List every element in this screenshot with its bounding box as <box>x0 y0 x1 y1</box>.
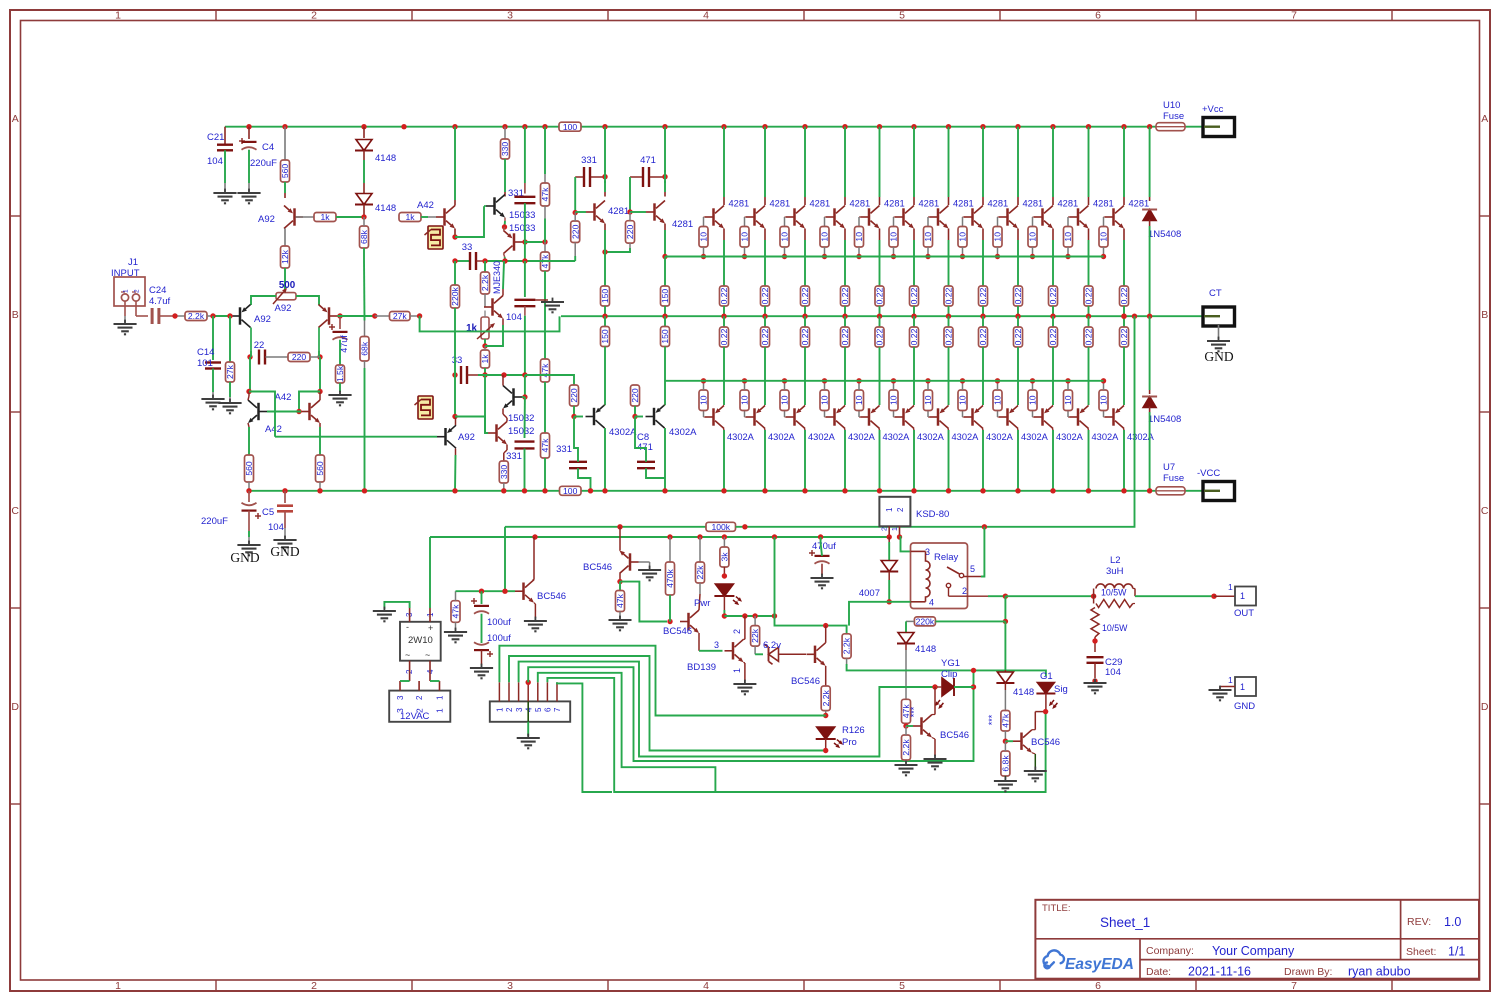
svg-text:1: 1 <box>732 668 742 673</box>
svg-text:4281: 4281 <box>953 199 974 209</box>
svg-text:560: 560 <box>315 461 325 476</box>
svg-text:5: 5 <box>899 980 905 992</box>
svg-text:L2: L2 <box>1110 555 1121 566</box>
svg-text:10: 10 <box>1063 395 1073 405</box>
svg-text:7: 7 <box>1291 9 1297 21</box>
svg-text:D: D <box>1481 701 1489 713</box>
svg-text:220: 220 <box>292 352 307 362</box>
svg-text:15033: 15033 <box>509 223 535 234</box>
svg-text:4148: 4148 <box>375 203 396 214</box>
svg-text:B: B <box>1481 309 1488 321</box>
svg-text:2: 2 <box>896 507 905 512</box>
svg-text:MJE340: MJE340 <box>492 261 502 294</box>
svg-text:1: 1 <box>892 527 899 531</box>
svg-text:2: 2 <box>882 527 889 531</box>
svg-text:100k: 100k <box>711 522 730 532</box>
svg-text:-: - <box>406 622 409 632</box>
svg-text:C5: C5 <box>262 507 274 518</box>
svg-text:47k: 47k <box>615 593 625 608</box>
svg-text:10: 10 <box>854 395 864 405</box>
svg-text:10: 10 <box>889 232 899 242</box>
svg-text:27k: 27k <box>225 364 235 379</box>
svg-text:10: 10 <box>923 232 933 242</box>
svg-text:C: C <box>1481 505 1489 517</box>
svg-text:3: 3 <box>507 980 513 992</box>
svg-text:0.22: 0.22 <box>760 328 770 345</box>
svg-text:22: 22 <box>254 340 265 351</box>
svg-text:1N5408: 1N5408 <box>1148 229 1181 240</box>
svg-text:1k: 1k <box>320 212 330 222</box>
svg-text:2W10: 2W10 <box>408 635 433 646</box>
svg-text:220k: 220k <box>450 286 460 305</box>
svg-text:GND: GND <box>1234 701 1255 712</box>
svg-text:10: 10 <box>1028 232 1038 242</box>
svg-text:3: 3 <box>714 640 719 650</box>
svg-text:4281: 4281 <box>919 199 940 209</box>
svg-text:YG1: YG1 <box>941 658 960 669</box>
svg-text:4302A: 4302A <box>808 432 836 442</box>
svg-text:0.22: 0.22 <box>800 287 810 304</box>
svg-text:4148: 4148 <box>915 644 936 655</box>
svg-text:Fuse: Fuse <box>1163 473 1184 484</box>
svg-text:10: 10 <box>780 232 790 242</box>
svg-text:A42: A42 <box>417 200 434 211</box>
svg-text:2.2k: 2.2k <box>821 689 831 706</box>
svg-text:A42: A42 <box>275 392 292 403</box>
svg-text:B: B <box>12 309 19 321</box>
svg-text:101: 101 <box>197 358 213 369</box>
svg-text:4281: 4281 <box>1058 199 1079 209</box>
svg-text:A92: A92 <box>275 303 292 314</box>
svg-text:C4: C4 <box>262 142 274 153</box>
svg-text:3: 3 <box>396 695 405 700</box>
svg-text:1: 1 <box>1228 582 1233 592</box>
svg-text:Sheet:: Sheet: <box>1406 946 1436 958</box>
svg-text:1: 1 <box>436 695 445 700</box>
svg-text:6.2v: 6.2v <box>763 640 781 651</box>
svg-text:560: 560 <box>280 164 290 179</box>
svg-text:4302A: 4302A <box>669 427 697 438</box>
svg-text:TITLE:: TITLE: <box>1042 903 1071 914</box>
svg-text:4302A: 4302A <box>917 432 945 442</box>
svg-text:10: 10 <box>820 395 830 405</box>
svg-text:4281: 4281 <box>672 219 693 230</box>
svg-text:0.22: 0.22 <box>1084 287 1094 304</box>
svg-text:Sig: Sig <box>1054 684 1068 695</box>
svg-text:+Vcc: +Vcc <box>1202 104 1224 115</box>
svg-text:1N5408: 1N5408 <box>1148 414 1181 425</box>
svg-text:0.22: 0.22 <box>875 287 885 304</box>
svg-text:0.22: 0.22 <box>1119 328 1129 345</box>
svg-text:2.2k: 2.2k <box>901 739 911 756</box>
svg-text:104: 104 <box>1105 667 1121 678</box>
svg-text:104: 104 <box>207 156 223 167</box>
svg-text:10: 10 <box>958 232 968 242</box>
svg-text:4302A: 4302A <box>1021 432 1049 442</box>
svg-text:OUT: OUT <box>1234 608 1254 619</box>
svg-text:GND: GND <box>1204 349 1233 364</box>
svg-text:1: 1 <box>1240 682 1245 692</box>
svg-text:4302A: 4302A <box>768 432 796 442</box>
svg-text:U10: U10 <box>1163 100 1180 111</box>
svg-text:5: 5 <box>534 707 543 712</box>
svg-text:10: 10 <box>820 232 830 242</box>
svg-text:10/5W: 10/5W <box>1101 588 1127 598</box>
svg-text:Date:: Date: <box>1146 966 1171 978</box>
svg-text:BD139: BD139 <box>687 662 716 673</box>
svg-text:1: 1 <box>123 289 130 293</box>
svg-text:10: 10 <box>1099 232 1109 242</box>
svg-text:0.22: 0.22 <box>760 287 770 304</box>
svg-text:***: *** <box>987 714 997 725</box>
svg-text:1: 1 <box>115 980 121 992</box>
svg-text:2.2k: 2.2k <box>480 274 490 291</box>
svg-text:4281: 4281 <box>770 199 791 209</box>
svg-text:6: 6 <box>1095 9 1101 21</box>
svg-text:2: 2 <box>414 708 424 713</box>
svg-text:15032: 15032 <box>508 413 534 424</box>
svg-text:0.22: 0.22 <box>909 287 919 304</box>
svg-text:2: 2 <box>311 980 317 992</box>
svg-text:560: 560 <box>244 461 254 476</box>
svg-text:6: 6 <box>1095 980 1101 992</box>
svg-text:4302A: 4302A <box>883 432 911 442</box>
svg-text:220uF: 220uF <box>250 158 277 169</box>
svg-text:Relay: Relay <box>934 552 959 563</box>
svg-text:0.22: 0.22 <box>840 328 850 345</box>
svg-text:104: 104 <box>268 522 284 533</box>
svg-text:470k: 470k <box>665 568 675 587</box>
svg-text:R126: R126 <box>842 725 865 736</box>
svg-text:U7: U7 <box>1163 462 1175 473</box>
svg-text:68k: 68k <box>360 341 370 356</box>
svg-text:0.22: 0.22 <box>1013 328 1023 345</box>
svg-text:4281: 4281 <box>608 206 629 217</box>
svg-text:0.22: 0.22 <box>1048 287 1058 304</box>
svg-text:~: ~ <box>405 650 410 660</box>
svg-text:C14: C14 <box>197 347 214 358</box>
svg-text:+: + <box>428 623 433 633</box>
svg-text:Company:: Company: <box>1146 945 1194 957</box>
svg-text:10: 10 <box>1028 395 1038 405</box>
svg-text:0.22: 0.22 <box>1048 328 1058 345</box>
svg-text:4281: 4281 <box>729 199 750 209</box>
svg-text:4302A: 4302A <box>727 432 755 442</box>
svg-text:10: 10 <box>1099 395 1109 405</box>
svg-text:220k: 220k <box>916 617 935 627</box>
svg-text:3: 3 <box>515 707 524 712</box>
svg-text:33: 33 <box>452 355 463 366</box>
svg-text:4302A: 4302A <box>952 432 980 442</box>
svg-text:22k: 22k <box>750 628 760 643</box>
svg-text:68k: 68k <box>359 229 369 244</box>
svg-text:471: 471 <box>640 155 656 166</box>
svg-text:4302A: 4302A <box>1056 432 1084 442</box>
svg-text:27k: 27k <box>393 311 408 321</box>
svg-text:150: 150 <box>600 329 610 344</box>
svg-text:220: 220 <box>569 388 579 403</box>
svg-text:330: 330 <box>499 465 509 480</box>
svg-text:1.0: 1.0 <box>1444 915 1461 929</box>
svg-text:0.22: 0.22 <box>719 328 729 345</box>
svg-text:REV:: REV: <box>1407 916 1431 928</box>
svg-text:47k: 47k <box>1001 713 1011 728</box>
svg-text:0.22: 0.22 <box>944 287 954 304</box>
svg-text:2.2k: 2.2k <box>842 637 852 654</box>
svg-text:BC546: BC546 <box>1031 737 1060 748</box>
svg-text:ryan abubo: ryan abubo <box>1348 965 1411 979</box>
svg-text:0.22: 0.22 <box>875 328 885 345</box>
svg-text:22k: 22k <box>695 565 705 580</box>
svg-text:150: 150 <box>600 289 610 304</box>
svg-text:~: ~ <box>425 650 430 660</box>
svg-text:-VCC: -VCC <box>1197 468 1220 479</box>
svg-text:1k: 1k <box>480 354 490 364</box>
svg-text:3: 3 <box>507 9 513 21</box>
svg-text:12k: 12k <box>280 249 290 264</box>
svg-text:6: 6 <box>544 707 553 712</box>
svg-text:4281: 4281 <box>850 199 871 209</box>
svg-text:220: 220 <box>570 224 580 239</box>
svg-text:BC546: BC546 <box>663 626 692 637</box>
svg-text:Pwr: Pwr <box>694 598 710 609</box>
svg-text:***: *** <box>909 706 919 717</box>
svg-text:4281: 4281 <box>1023 199 1044 209</box>
svg-text:1k: 1k <box>405 212 415 222</box>
svg-text:4281: 4281 <box>810 199 831 209</box>
svg-text:BC546: BC546 <box>940 730 969 741</box>
svg-text:10: 10 <box>923 395 933 405</box>
svg-text:47k: 47k <box>540 438 550 453</box>
svg-text:4281: 4281 <box>1129 199 1150 209</box>
svg-text:0.22: 0.22 <box>1013 287 1023 304</box>
svg-text:2: 2 <box>732 629 742 634</box>
svg-text:0.22: 0.22 <box>840 287 850 304</box>
svg-text:Pro: Pro <box>842 737 857 748</box>
svg-text:BC546: BC546 <box>583 562 612 573</box>
svg-text:4281: 4281 <box>884 199 905 209</box>
svg-text:GND: GND <box>270 544 299 559</box>
svg-text:47k: 47k <box>451 604 461 619</box>
svg-text:Fuse: Fuse <box>1163 111 1184 122</box>
svg-text:C: C <box>11 505 19 517</box>
svg-text:5: 5 <box>970 564 975 574</box>
svg-text:2: 2 <box>962 586 967 596</box>
svg-text:Sheet_1: Sheet_1 <box>1100 915 1150 930</box>
svg-text:0.22: 0.22 <box>1084 328 1094 345</box>
svg-text:G1: G1 <box>1040 671 1053 682</box>
svg-text:100uf: 100uf <box>487 633 511 644</box>
svg-text:5: 5 <box>899 9 905 21</box>
svg-text:470uf: 470uf <box>812 541 836 552</box>
svg-text:1: 1 <box>1228 675 1233 685</box>
svg-text:1: 1 <box>496 707 505 712</box>
svg-text:0.22: 0.22 <box>800 328 810 345</box>
svg-text:3k: 3k <box>720 552 730 562</box>
svg-text:2: 2 <box>134 289 141 293</box>
svg-text:0.22: 0.22 <box>909 328 919 345</box>
svg-text:2.2k: 2.2k <box>188 311 205 321</box>
svg-text:331: 331 <box>581 155 597 166</box>
svg-text:7: 7 <box>1291 980 1297 992</box>
svg-text:500: 500 <box>279 280 296 291</box>
svg-text:C24: C24 <box>149 285 166 296</box>
svg-text:0.22: 0.22 <box>944 328 954 345</box>
svg-text:10: 10 <box>699 395 709 405</box>
svg-text:4281: 4281 <box>1093 199 1114 209</box>
svg-text:1: 1 <box>885 507 894 512</box>
svg-text:A92: A92 <box>254 314 271 325</box>
svg-text:150: 150 <box>660 329 670 344</box>
svg-text:104: 104 <box>506 312 522 323</box>
svg-text:GND: GND <box>230 550 259 565</box>
svg-text:10: 10 <box>889 395 899 405</box>
svg-text:3: 3 <box>395 708 405 713</box>
svg-text:CT: CT <box>1209 288 1222 299</box>
svg-text:10: 10 <box>854 232 864 242</box>
svg-text:4302A: 4302A <box>609 427 637 438</box>
svg-text:A92: A92 <box>458 432 475 443</box>
svg-text:331: 331 <box>506 451 522 462</box>
svg-text:1/1: 1/1 <box>1448 945 1465 959</box>
svg-text:10: 10 <box>993 232 1003 242</box>
svg-text:EasyEDA: EasyEDA <box>1065 956 1134 973</box>
svg-text:15033: 15033 <box>509 210 535 221</box>
svg-text:0.22: 0.22 <box>1119 287 1129 304</box>
svg-text:7: 7 <box>553 707 562 712</box>
svg-text:4302A: 4302A <box>1092 432 1120 442</box>
svg-text:4.7uf: 4.7uf <box>149 296 170 307</box>
svg-text:220: 220 <box>625 225 635 240</box>
svg-text:100: 100 <box>563 122 578 132</box>
svg-text:4: 4 <box>703 9 709 21</box>
svg-text:Drawn By:: Drawn By: <box>1284 966 1332 978</box>
svg-text:A: A <box>1481 113 1488 125</box>
svg-text:4: 4 <box>929 598 934 608</box>
svg-text:4148: 4148 <box>375 153 396 164</box>
svg-text:2: 2 <box>311 9 317 21</box>
svg-text:10/5W: 10/5W <box>1102 623 1128 633</box>
svg-text:1: 1 <box>1240 591 1245 601</box>
svg-text:1.5k: 1.5k <box>335 365 345 382</box>
svg-text:D: D <box>11 701 19 713</box>
svg-text:220uF: 220uF <box>201 516 228 527</box>
svg-text:100uf: 100uf <box>487 617 511 628</box>
svg-text:2021-11-16: 2021-11-16 <box>1188 965 1251 979</box>
svg-text:4281: 4281 <box>988 199 1009 209</box>
svg-text:4302A: 4302A <box>848 432 876 442</box>
svg-text:A92: A92 <box>258 214 275 225</box>
svg-text:10: 10 <box>740 395 750 405</box>
svg-text:2: 2 <box>415 695 424 700</box>
svg-text:0.22: 0.22 <box>978 328 988 345</box>
svg-text:Your Company: Your Company <box>1212 944 1295 958</box>
svg-text:10: 10 <box>740 232 750 242</box>
svg-text:15032: 15032 <box>508 426 534 437</box>
svg-text:0.22: 0.22 <box>978 287 988 304</box>
svg-text:33: 33 <box>462 242 473 253</box>
svg-text:3uH: 3uH <box>1106 566 1124 577</box>
svg-text:C21: C21 <box>207 132 224 143</box>
svg-text:1: 1 <box>435 708 445 713</box>
svg-text:4302A: 4302A <box>986 432 1014 442</box>
svg-text:100: 100 <box>563 486 578 496</box>
svg-text:330: 330 <box>500 142 510 157</box>
svg-text:4148: 4148 <box>1013 687 1034 698</box>
svg-text:BC546: BC546 <box>791 676 820 687</box>
svg-text:4007: 4007 <box>859 588 880 599</box>
svg-text:0.22: 0.22 <box>719 287 729 304</box>
svg-text:10: 10 <box>1063 232 1073 242</box>
svg-text:4: 4 <box>703 980 709 992</box>
svg-text:2: 2 <box>505 707 514 712</box>
svg-text:J1: J1 <box>128 257 138 268</box>
svg-text:47k: 47k <box>540 187 550 202</box>
svg-text:10: 10 <box>958 395 968 405</box>
svg-text:6.8k: 6.8k <box>1001 755 1011 772</box>
svg-text:10: 10 <box>780 395 790 405</box>
svg-text:150: 150 <box>660 289 670 304</box>
svg-text:BC546: BC546 <box>537 591 566 602</box>
svg-text:10: 10 <box>993 395 1003 405</box>
svg-text:220: 220 <box>630 388 640 403</box>
svg-text:A42: A42 <box>265 424 282 435</box>
svg-text:A: A <box>12 113 19 125</box>
svg-text:10: 10 <box>699 232 709 242</box>
svg-text:KSD-80: KSD-80 <box>916 509 949 520</box>
svg-text:331: 331 <box>556 444 572 455</box>
svg-text:1: 1 <box>115 9 121 21</box>
